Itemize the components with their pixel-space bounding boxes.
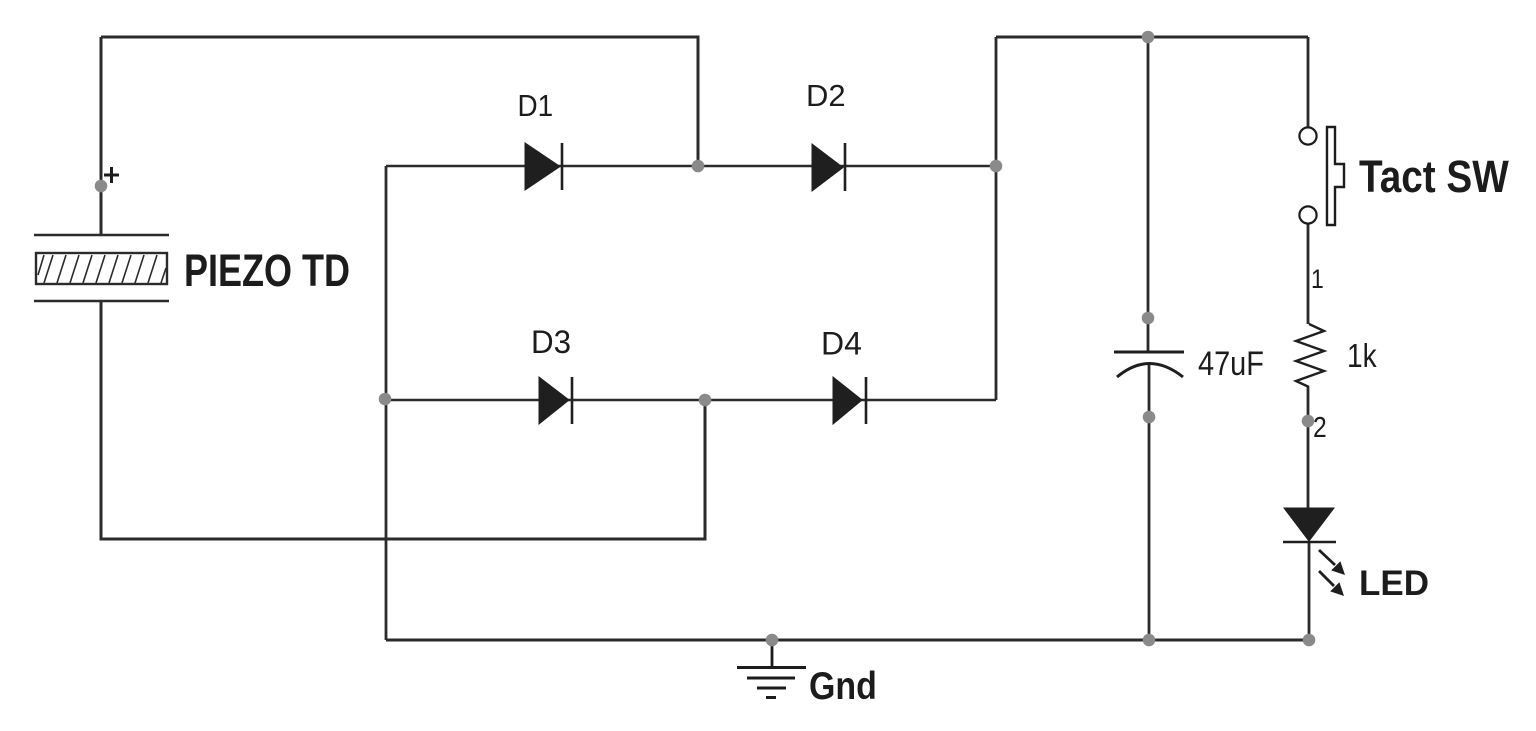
tact switch SW1	[1299, 127, 1344, 225]
wire top-right positive rail	[996, 36, 1308, 39]
wire capacitor branch lower	[1148, 363, 1151, 640]
label D2	[806, 78, 846, 113]
resistor R1 1k	[1296, 324, 1324, 387]
wire resistor to LED lead	[1307, 387, 1310, 509]
svg-text:D2: D2	[806, 78, 846, 113]
svg-text:1k: 1k	[1347, 338, 1377, 375]
svg-text:D4: D4	[821, 326, 862, 362]
label Gnd	[809, 664, 877, 708]
junction node bridge top right	[990, 160, 1003, 173]
junction node piezo plus	[95, 180, 108, 193]
wire bridge top row	[386, 165, 996, 168]
piezo transducer PIEZO TD	[34, 235, 169, 301]
wire bridge right vertical	[995, 37, 998, 400]
label Tact SW	[1359, 151, 1509, 201]
junction node capacitor ground	[1143, 634, 1156, 647]
wire top-left rail from piezo+ to bridge top mid	[101, 37, 698, 166]
wire capacitor branch upper	[1147, 37, 1150, 352]
wire bridge bottom row	[386, 399, 996, 402]
junction node resistor pin 2	[1302, 415, 1315, 428]
wire LED bottom lead	[1308, 541, 1311, 640]
junction node bridge bottom left	[379, 393, 392, 406]
diode D4	[833, 377, 866, 424]
svg-text:Tact SW: Tact SW	[1359, 151, 1509, 201]
ground symbol	[737, 640, 806, 698]
label 1k	[1347, 338, 1377, 375]
svg-text:D3: D3	[531, 324, 571, 360]
wire piezo top lead	[100, 37, 103, 235]
junction node LED ground	[1303, 634, 1316, 647]
LED D5	[1283, 508, 1345, 596]
diode D2	[812, 143, 845, 191]
svg-text:D1: D1	[518, 89, 554, 124]
wire bridge left vertical	[385, 166, 388, 640]
junction node bridge bottom mid	[699, 394, 712, 407]
svg-text:Gnd: Gnd	[809, 664, 877, 708]
junction node ground tap	[766, 634, 779, 647]
junction node top rail capacitor tap	[1142, 31, 1155, 44]
wire switch top lead	[1307, 37, 1310, 127]
plus sign polarity mark	[104, 167, 119, 183]
junction node capacitor bottom	[1143, 411, 1156, 424]
diode D3	[539, 377, 572, 424]
label D3	[531, 324, 571, 360]
label pin 1	[1311, 264, 1324, 294]
label PIEZO TD	[184, 245, 350, 296]
junction node bridge top mid	[692, 160, 705, 173]
wire bottom ground rail	[386, 639, 1309, 642]
svg-text:PIEZO TD: PIEZO TD	[184, 245, 350, 296]
wire piezo bottom lead to bridge bottom mid	[101, 301, 705, 539]
label D1	[518, 89, 554, 124]
label D4	[821, 326, 862, 362]
svg-text:1: 1	[1311, 264, 1324, 294]
svg-text:47uF: 47uF	[1198, 344, 1264, 383]
svg-text:2: 2	[1313, 411, 1327, 443]
svg-text:LED: LED	[1359, 564, 1429, 603]
label 47uF	[1198, 344, 1264, 383]
junction node capacitor top	[1142, 312, 1155, 325]
wire switch to resistor lead	[1307, 224, 1310, 324]
capacitor C1 47uF	[1114, 352, 1184, 377]
diode D1	[525, 143, 562, 190]
label pin 2	[1313, 411, 1327, 443]
label LED	[1359, 564, 1429, 603]
